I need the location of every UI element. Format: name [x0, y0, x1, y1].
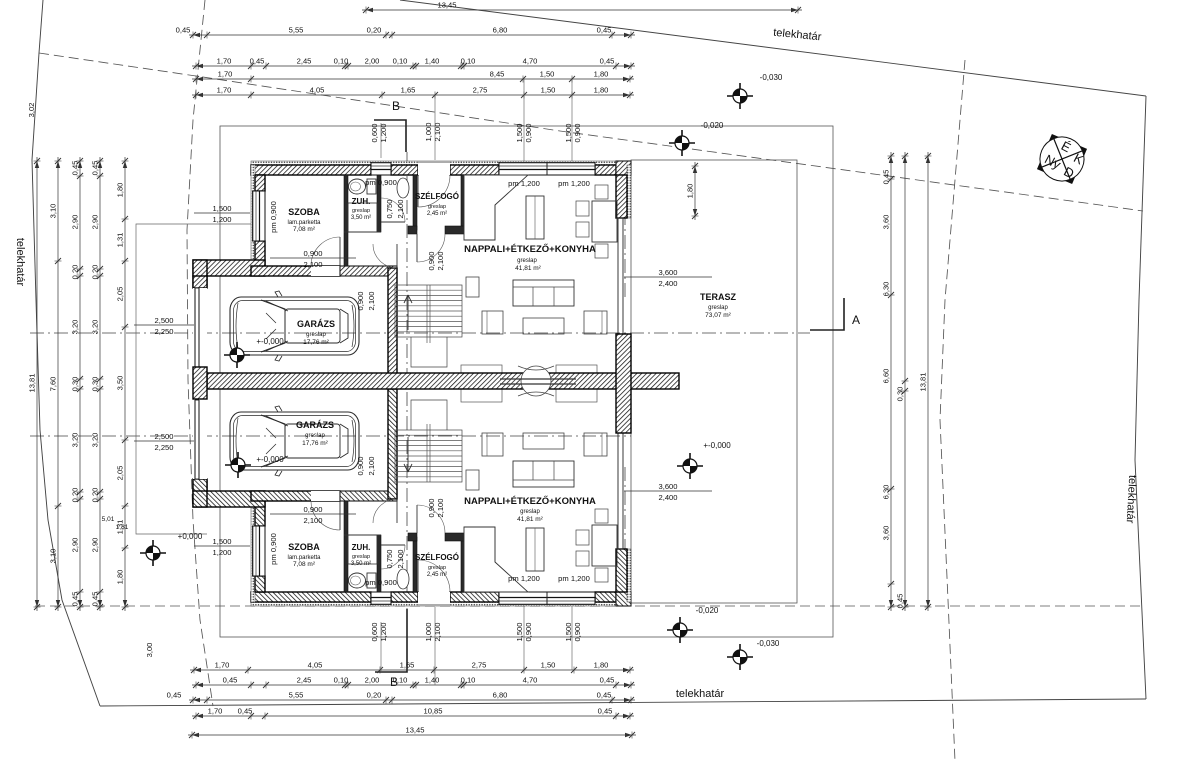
svg-text:3,20: 3,20 [91, 433, 100, 448]
svg-text:41,81 m²: 41,81 m² [515, 265, 541, 272]
entry door leaf and arc [418, 175, 450, 207]
dimension chain bottom row 4 [192, 715, 634, 717]
svg-text:greslap: greslap [352, 208, 370, 214]
svg-text:+-0,000: +-0,000 [703, 441, 731, 450]
svg-text:greslap: greslap [428, 204, 446, 210]
svg-text:pm 0,900: pm 0,900 [365, 578, 397, 587]
SZELFOGO west partition [413, 175, 417, 230]
door szelfogo to nappali arc [417, 505, 445, 533]
svg-text:0,900: 0,900 [427, 251, 436, 270]
terrace sliding door upper 3,60 [617, 433, 619, 549]
svg-text:1,500: 1,500 [515, 123, 524, 142]
svg-text:SZÉLFOGÓ: SZÉLFOGÓ [415, 553, 459, 562]
svg-text:NAPPALI+ÉTKEZŐ+KONYHA: NAPPALI+ÉTKEZŐ+KONYHA [464, 495, 596, 507]
svg-text:NAPPALI+ÉTKEZŐ+KONYHA: NAPPALI+ÉTKEZŐ+KONYHA [464, 243, 596, 255]
svg-text:0,45: 0,45 [167, 691, 182, 700]
svg-text:7,08 m²: 7,08 m² [293, 226, 316, 233]
dimension chain top row 2 [189, 34, 635, 36]
svg-text:3,50 m²: 3,50 m² [351, 561, 371, 567]
svg-text:0,45: 0,45 [882, 170, 891, 185]
svg-text:0,30: 0,30 [896, 387, 905, 402]
dimension chain top row 3 [192, 65, 635, 67]
svg-text:0,45: 0,45 [896, 594, 905, 609]
svg-text:2,45 m²: 2,45 m² [427, 211, 447, 217]
stair wall (garage / hall) [388, 268, 397, 378]
kitchen counter L-shape [464, 527, 528, 592]
svg-text:0,10: 0,10 [461, 57, 476, 66]
svg-text:0,45: 0,45 [91, 592, 100, 607]
svg-text:2,90: 2,90 [71, 215, 80, 230]
svg-text:0,45: 0,45 [223, 676, 238, 685]
survey marker -0,020 bottom [667, 617, 693, 643]
SZOBA door opening and arc [311, 491, 340, 501]
dimension chain bottom row 1 [190, 669, 634, 671]
north exterior wall insulation band [251, 161, 631, 165]
windows living room north wall 2x1,50 [499, 162, 595, 175]
svg-text:3,20: 3,20 [71, 433, 80, 448]
survey marker -0,020 top [669, 130, 695, 156]
terrace sliding door upper 3,60 [617, 218, 619, 334]
svg-text:B: B [392, 99, 400, 113]
svg-text:13,45: 13,45 [405, 726, 424, 735]
svg-text:greslap: greslap [708, 305, 728, 311]
ZUH door arc [381, 198, 405, 222]
svg-text:2,90: 2,90 [71, 538, 80, 553]
svg-text:3,600: 3,600 [658, 268, 677, 277]
svg-text:1,70: 1,70 [217, 86, 232, 95]
svg-text:5,01: 5,01 [102, 516, 115, 523]
svg-text:1,000: 1,000 [424, 122, 433, 141]
svg-text:0,20: 0,20 [91, 265, 100, 280]
svg-text:0,45: 0,45 [597, 26, 612, 35]
svg-text:pm 0,900: pm 0,900 [365, 178, 397, 187]
svg-text:7,60: 7,60 [49, 377, 58, 392]
svg-text:2,00: 2,00 [365, 676, 380, 685]
dimension chain left col 2 [57, 157, 59, 611]
dimension chain top row 1 (13,45) [362, 9, 802, 11]
svg-text:0,10: 0,10 [334, 676, 349, 685]
compass rose (N/E/S/W) [1027, 124, 1097, 194]
svg-text:-0,030: -0,030 [757, 639, 780, 648]
svg-text:0,900: 0,900 [573, 622, 582, 641]
garage door dim 2,500/2,250 top [134, 316, 194, 336]
dimension chain right col 1 [890, 152, 892, 611]
svg-text:1,500: 1,500 [515, 622, 524, 641]
stair wall (garage / hall) [388, 389, 397, 499]
svg-text:2,75: 2,75 [472, 661, 487, 670]
svg-text:0,750: 0,750 [385, 199, 394, 218]
entry door opening north wall [418, 161, 450, 175]
svg-text:4,05: 4,05 [308, 661, 323, 670]
ZUH east partition [377, 175, 381, 232]
partition SZOBA / ZUH [344, 175, 348, 266]
section marker B bottom [375, 609, 407, 672]
ZUH bottom wall line [344, 534, 381, 536]
svg-text:-0,020: -0,020 [701, 121, 724, 130]
dimension chain bottom row 3 [189, 699, 635, 701]
armchair left [482, 433, 503, 456]
ZUH room outline [348, 203, 377, 232]
terrace door dim top 3,600/2,400 [624, 268, 712, 288]
svg-text:2,90: 2,90 [91, 538, 100, 553]
svg-text:1,80: 1,80 [594, 70, 609, 79]
hall door to garage arc [373, 244, 397, 268]
garage north wall [193, 491, 265, 507]
svg-text:6,30: 6,30 [882, 282, 891, 297]
svg-text:17,76 m²: 17,76 m² [303, 339, 329, 346]
armchair left [482, 311, 503, 334]
svg-text:0,10: 0,10 [461, 676, 476, 685]
dining chairs [576, 551, 589, 566]
svg-text:+0,000: +0,000 [178, 532, 203, 541]
svg-text:0,45: 0,45 [600, 57, 615, 66]
kitchen island [526, 196, 544, 239]
svg-text:2,45: 2,45 [297, 676, 312, 685]
svg-text:2,00: 2,00 [365, 57, 380, 66]
svg-text:2,45 m²: 2,45 m² [427, 572, 447, 578]
leader line x381 bottom [380, 622, 382, 671]
bottom duplex unit (mirrored copy) [193, 389, 631, 606]
svg-text:0,20: 0,20 [71, 265, 80, 280]
svg-text:0,45: 0,45 [71, 161, 80, 176]
svg-text:3,00: 3,00 [145, 643, 154, 658]
window WC 0,60 north wall [371, 162, 391, 175]
setback dashed line west vertical [187, 0, 213, 706]
svg-text:2,100: 2,100 [367, 291, 376, 310]
SZOBA door opening and arc [311, 266, 340, 276]
svg-text:0,600: 0,600 [370, 123, 379, 142]
svg-text:3,10: 3,10 [49, 204, 58, 219]
armchair right [584, 433, 607, 456]
leader line x572 bottom [571, 606, 573, 670]
setback dashed line east vertical [940, 60, 965, 761]
party wall east pier [616, 334, 631, 433]
svg-text:0,900: 0,900 [303, 249, 322, 258]
svg-text:1,70: 1,70 [218, 70, 233, 79]
svg-text:telekhatár: telekhatár [676, 688, 725, 700]
axis line vertical terrace door top (dash-dot) [624, 163, 626, 300]
leader line x524 top [523, 79, 525, 161]
east exterior wall upper [627, 549, 631, 602]
door szelfogo to nappali arc [417, 234, 445, 262]
svg-text:0,900: 0,900 [356, 291, 365, 310]
party wall west cap [193, 367, 207, 399]
szoba window dim 1,500/1,200 top [194, 204, 250, 224]
svg-text:SZOBA: SZOBA [288, 542, 320, 552]
svg-text:2,500: 2,500 [154, 316, 173, 325]
dimension chain left col 4 [99, 157, 101, 611]
svg-text:41,81 m²: 41,81 m² [517, 516, 543, 523]
svg-text:0,20: 0,20 [367, 691, 382, 700]
svg-text:GARÁZS: GARÁZS [297, 319, 335, 329]
wall between SZOBA and garage [251, 266, 340, 276]
hall door to garage arc [373, 499, 397, 523]
eaves outline left [136, 224, 251, 534]
tv bench [466, 277, 479, 297]
top duplex unit structural elements [193, 161, 631, 378]
window SZOBA 1,50 west wall [252, 191, 265, 241]
svg-text:0,900: 0,900 [356, 456, 365, 475]
property boundary north (telekhatar) [400, 0, 1146, 96]
section marker B top [374, 120, 406, 152]
svg-text:2,100: 2,100 [436, 251, 445, 270]
terrace outline [631, 160, 797, 603]
party wall (center, hatched) [207, 373, 679, 389]
svg-text:greslap: greslap [517, 258, 537, 264]
svg-text:0,45: 0,45 [250, 57, 265, 66]
partition SZOBA / ZUH [344, 501, 348, 592]
svg-text:SZÉLFOGÓ: SZÉLFOGÓ [415, 192, 459, 201]
property boundary south (telekhatar) [100, 699, 1146, 706]
dimension 1,80 terrace wall [694, 162, 696, 220]
svg-text:0,20: 0,20 [91, 488, 100, 503]
entry door leaf and arc [418, 560, 450, 592]
svg-text:greslap: greslap [352, 554, 370, 560]
svg-text:1,31: 1,31 [116, 524, 129, 531]
svg-text:2,45: 2,45 [297, 57, 312, 66]
building -0,020 outline rectangle [220, 126, 833, 637]
svg-text:5,55: 5,55 [289, 691, 304, 700]
svg-text:3,50 m²: 3,50 m² [351, 215, 371, 221]
svg-text:7,08 m²: 7,08 m² [293, 561, 316, 568]
survey marker garage 2 +-0,000 [225, 452, 251, 478]
svg-text:0,30: 0,30 [91, 377, 100, 392]
szoba window dim 1,500/1,200 bottom [194, 537, 250, 557]
svg-text:2,500: 2,500 [154, 432, 173, 441]
dining chairs [576, 201, 589, 216]
svg-text:greslap: greslap [520, 509, 540, 515]
svg-text:0,20: 0,20 [367, 26, 382, 35]
svg-text:2,100: 2,100 [303, 260, 322, 269]
svg-text:13,45: 13,45 [437, 1, 456, 10]
svg-text:0,900: 0,900 [524, 622, 533, 641]
svg-text:2,100: 2,100 [433, 122, 442, 141]
dimension chain left col 5 [124, 157, 126, 611]
property boundary east (telekhatar) [1135, 96, 1146, 699]
svg-text:1,500: 1,500 [212, 537, 231, 546]
svg-text:6,80: 6,80 [493, 26, 508, 35]
svg-text:2,100: 2,100 [433, 622, 442, 641]
svg-text:1,200: 1,200 [379, 123, 388, 142]
ZUH door arc [381, 545, 405, 569]
svg-text:1,50: 1,50 [541, 86, 556, 95]
svg-text:1,500: 1,500 [564, 123, 573, 142]
svg-text:+-0,000: +-0,000 [256, 455, 284, 464]
svg-text:4,05: 4,05 [310, 86, 325, 95]
dimension chain left col 3 [79, 157, 81, 611]
svg-text:pm 1,200: pm 1,200 [508, 179, 540, 188]
svg-text:1,50: 1,50 [541, 661, 556, 670]
svg-text:0,750: 0,750 [385, 549, 394, 568]
svg-text:1,65: 1,65 [401, 86, 416, 95]
garage door 2,50 in west wall [193, 288, 207, 367]
garage west wall upper stub [193, 479, 207, 491]
window SZOBA 1,50 west wall [252, 526, 265, 576]
svg-text:0,600: 0,600 [370, 622, 379, 641]
axis line garage 2 (dash-dot) [30, 435, 631, 437]
svg-text:2,100: 2,100 [303, 516, 322, 525]
svg-text:1,80: 1,80 [594, 661, 609, 670]
axis line vertical hall (dash-dot) [406, 152, 408, 615]
dimension chain right col 3 (13,81) [927, 152, 929, 611]
svg-text:3,50: 3,50 [116, 376, 125, 391]
svg-text:2,100: 2,100 [367, 456, 376, 475]
setback dashed line south horizontal [35, 605, 1140, 607]
svg-text:A: A [852, 313, 860, 327]
svg-text:greslap: greslap [305, 433, 325, 439]
west exterior wall of SZOBA [251, 501, 255, 602]
coffee table [523, 433, 564, 449]
survey marker +0,000 left bottom [140, 540, 166, 566]
survey marker garage 1 +-0,000 [224, 342, 250, 368]
WC toilet [367, 179, 376, 194]
west exterior wall of SZOBA [251, 165, 255, 266]
ZUH east partition [377, 535, 381, 592]
dimension chain left col 1 (13,81) [36, 157, 38, 611]
svg-text:2,100: 2,100 [396, 549, 405, 568]
svg-text:greslap: greslap [428, 565, 446, 571]
svg-text:0,10: 0,10 [393, 676, 408, 685]
svg-text:0,45: 0,45 [597, 691, 612, 700]
setback dashed line diagonal upper [39, 53, 1143, 211]
armchair right [584, 311, 607, 334]
svg-text:1,000: 1,000 [424, 622, 433, 641]
svg-text:2,400: 2,400 [658, 279, 677, 288]
svg-text:TERASZ: TERASZ [700, 292, 737, 302]
svg-text:2,90: 2,90 [91, 215, 100, 230]
survey marker terrace +-0,000 [677, 453, 703, 479]
dimension chain right col 2 [904, 152, 906, 611]
car in garage [230, 291, 359, 361]
svg-text:1,31: 1,31 [116, 233, 125, 248]
SZELFOGO south wall with door [408, 533, 417, 541]
svg-text:1,65: 1,65 [400, 661, 415, 670]
svg-text:13,81: 13,81 [28, 373, 37, 392]
round table on party wall [521, 366, 551, 396]
car in garage [230, 406, 359, 476]
svg-text:2,100: 2,100 [436, 498, 445, 517]
svg-text:2,250: 2,250 [154, 327, 173, 336]
tv bench [466, 470, 479, 490]
svg-text:0,30: 0,30 [71, 377, 80, 392]
terrace door dim bottom 3,600/2,400 [624, 482, 712, 502]
svg-text:6,60: 6,60 [882, 369, 891, 384]
svg-text:2,05: 2,05 [116, 466, 125, 481]
svg-text:telekhatár: telekhatár [1124, 475, 1139, 524]
svg-text:1,70: 1,70 [208, 707, 223, 716]
svg-text:6,80: 6,80 [493, 691, 508, 700]
side tables at party wall [461, 389, 502, 402]
leader line x572 top [571, 79, 573, 161]
svg-text:2,400: 2,400 [658, 493, 677, 502]
svg-text:1,200: 1,200 [212, 548, 231, 557]
svg-text:0,900: 0,900 [303, 505, 322, 514]
north exterior wall insulation band [251, 602, 631, 606]
svg-text:0,45: 0,45 [176, 26, 191, 35]
svg-text:0,45: 0,45 [598, 707, 613, 716]
svg-text:3,60: 3,60 [882, 526, 891, 541]
wall between SZOBA and garage [251, 491, 340, 501]
svg-text:1,80: 1,80 [116, 183, 125, 198]
svg-text:+-0,000: +-0,000 [256, 337, 284, 346]
svg-text:pm 1,200: pm 1,200 [508, 574, 540, 583]
svg-text:0,900: 0,900 [573, 123, 582, 142]
sofa [513, 280, 574, 306]
svg-text:3,20: 3,20 [91, 320, 100, 335]
svg-text:17,76 m²: 17,76 m² [302, 440, 328, 447]
ZUH room outline [348, 535, 377, 564]
survey marker -0,030 bottom [727, 644, 753, 670]
svg-text:1,500: 1,500 [212, 204, 231, 213]
axis line vertical terrace door bottom (dash-dot) [624, 467, 626, 604]
svg-text:1,200: 1,200 [212, 215, 231, 224]
hand basin [397, 569, 409, 589]
WC toilet [367, 573, 376, 588]
svg-text:3,20: 3,20 [71, 320, 80, 335]
svg-text:1,70: 1,70 [217, 57, 232, 66]
SZELFOGO west partition [413, 537, 417, 592]
dining table [592, 525, 617, 566]
svg-text:3,60: 3,60 [882, 215, 891, 230]
north exterior wall [251, 592, 371, 602]
svg-text:3,600: 3,600 [658, 482, 677, 491]
svg-text:1,200: 1,200 [379, 622, 388, 641]
SZELFOGO east partition [461, 175, 465, 230]
survey marker -0,030 top [727, 83, 753, 109]
svg-text:2,100: 2,100 [396, 199, 405, 218]
svg-text:1,40: 1,40 [425, 676, 440, 685]
staircase [395, 285, 462, 367]
leader line x524 bottom [523, 606, 525, 670]
svg-text:2,250: 2,250 [154, 443, 173, 452]
garage north wall [193, 260, 265, 276]
SZELFOGO south wall with door [408, 226, 417, 234]
sofa [513, 461, 574, 487]
kitchen island [526, 528, 544, 571]
svg-text:2,75: 2,75 [473, 86, 488, 95]
svg-text:pm 0,900: pm 0,900 [269, 201, 278, 233]
north exterior wall [251, 165, 371, 175]
leader line x381 top [380, 123, 382, 158]
svg-text:pm 0,900: pm 0,900 [269, 533, 278, 565]
garage west wall upper stub [193, 276, 207, 288]
svg-text:-0,030: -0,030 [760, 73, 783, 82]
section line A-A (dash-dot) [30, 332, 810, 334]
window WC 0,60 north wall [371, 592, 391, 605]
dimension chain bottom row 5 (13,45) [188, 734, 636, 736]
svg-text:0,10: 0,10 [334, 57, 349, 66]
svg-text:0,900: 0,900 [427, 498, 436, 517]
svg-text:4,70: 4,70 [523, 57, 538, 66]
svg-text:SZOBA: SZOBA [288, 207, 320, 217]
svg-text:2,05: 2,05 [116, 287, 125, 302]
svg-text:ZUH.: ZUH. [352, 543, 371, 552]
svg-text:0,45: 0,45 [238, 707, 253, 716]
svg-text:GARÁZS: GARÁZS [296, 420, 334, 430]
svg-text:1,40: 1,40 [425, 57, 440, 66]
svg-text:3,02: 3,02 [27, 103, 36, 118]
windows living room north wall 2x1,50 [499, 592, 595, 605]
svg-text:1,50: 1,50 [540, 70, 555, 79]
svg-text:0,10: 0,10 [393, 57, 408, 66]
garage door 2,50 in west wall [193, 400, 207, 479]
svg-text:1,80: 1,80 [594, 86, 609, 95]
east exterior wall upper [627, 165, 631, 218]
svg-text:0,900: 0,900 [524, 123, 533, 142]
coffee table [523, 318, 564, 334]
svg-text:73,07 m²: 73,07 m² [705, 312, 731, 319]
dining table [592, 201, 617, 242]
